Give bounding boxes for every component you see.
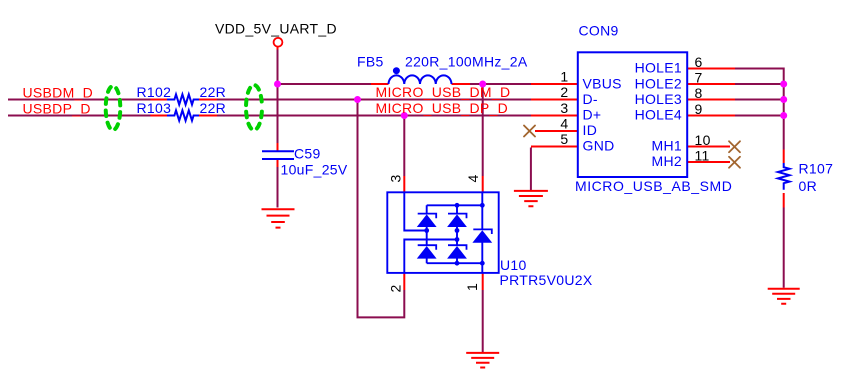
svg-text:9: 9 (695, 101, 703, 117)
svg-text:D-: D- (583, 91, 598, 107)
svg-text:MICRO_USB_DM_D: MICRO_USB_DM_D (376, 84, 511, 100)
svg-text:VBUS: VBUS (583, 75, 622, 91)
svg-text:8: 8 (695, 85, 703, 101)
svg-text:7: 7 (695, 70, 703, 86)
svg-text:0R: 0R (799, 178, 818, 194)
svg-text:ID: ID (583, 122, 598, 138)
svg-text:CON9: CON9 (579, 23, 619, 39)
svg-text:HOLE1: HOLE1 (635, 60, 682, 76)
svg-text:USBDM_D: USBDM_D (23, 84, 94, 100)
svg-text:FB5: FB5 (357, 54, 384, 70)
svg-text:10uF_25V: 10uF_25V (281, 162, 348, 178)
svg-text:22R: 22R (200, 84, 227, 100)
svg-text:MH1: MH1 (652, 137, 682, 153)
svg-text:U10: U10 (500, 257, 527, 273)
svg-text:2: 2 (560, 84, 568, 100)
svg-text:4: 4 (465, 174, 481, 182)
svg-text:HOLE3: HOLE3 (635, 91, 682, 107)
svg-text:220R_100MHz_2A: 220R_100MHz_2A (405, 54, 528, 70)
svg-text:USBDP_D: USBDP_D (23, 100, 91, 116)
svg-text:MH2: MH2 (652, 153, 682, 169)
svg-text:3: 3 (560, 100, 568, 116)
svg-text:VDD_5V_UART_D: VDD_5V_UART_D (215, 21, 337, 37)
svg-text:R107: R107 (799, 161, 834, 177)
svg-text:HOLE2: HOLE2 (635, 75, 682, 91)
svg-text:11: 11 (695, 148, 710, 164)
svg-text:C59: C59 (294, 146, 321, 162)
svg-text:2: 2 (388, 284, 404, 292)
svg-text:3: 3 (388, 174, 404, 182)
svg-text:4: 4 (560, 116, 568, 132)
svg-text:GND: GND (583, 137, 615, 153)
svg-text:R103: R103 (137, 100, 172, 116)
svg-text:HOLE4: HOLE4 (635, 106, 682, 122)
svg-text:5: 5 (560, 131, 568, 147)
svg-text:MICRO_USB_AB_SMD: MICRO_USB_AB_SMD (575, 178, 732, 194)
svg-text:MICRO_USB_DP_D: MICRO_USB_DP_D (376, 100, 509, 116)
svg-text:D+: D+ (583, 106, 602, 122)
svg-text:6: 6 (695, 54, 703, 70)
svg-text:R102: R102 (137, 84, 172, 100)
svg-text:1: 1 (560, 69, 568, 85)
svg-text:1: 1 (464, 283, 480, 291)
svg-text:PRTR5V0U2X: PRTR5V0U2X (500, 272, 593, 288)
svg-text:22R: 22R (200, 100, 227, 116)
svg-text:10: 10 (695, 132, 711, 148)
